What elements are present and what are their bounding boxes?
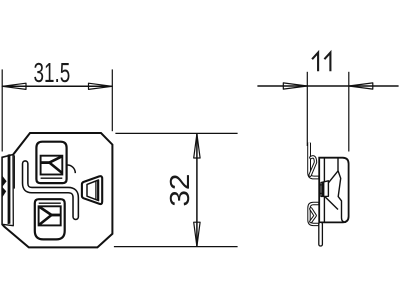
arrow pointing right — [283, 83, 307, 89]
left bracket plate — [2, 155, 13, 226]
top slot diagonal upper — [49, 156, 62, 162]
arrow right — [89, 83, 113, 89]
lower spring curl — [311, 209, 315, 222]
nose trapezoid outer — [82, 176, 102, 204]
bottom slot upper line — [39, 202, 61, 204]
S-band spring strip — [25, 164, 75, 217]
side body block — [319, 158, 348, 223]
bottom slot inner rect — [39, 206, 61, 225]
upper spring curl — [310, 157, 315, 175]
top slot diagonal lower — [49, 163, 62, 174]
dim line — [2, 85, 112, 87]
top slot inner rect — [41, 156, 63, 175]
dim line — [196, 134, 198, 247]
body outline — [2, 133, 112, 247]
arrow pointing left — [349, 83, 373, 89]
ext line left — [1, 69, 3, 151]
small arc right of top slot — [67, 165, 75, 173]
bottom slot outer — [35, 199, 65, 239]
ext line right — [111, 69, 113, 131]
ext line left — [306, 72, 308, 146]
top slot lower line — [41, 177, 63, 179]
nose fold line 1 — [95, 181, 97, 200]
top slot outer — [36, 142, 66, 183]
diagonal bottom — [325, 196, 338, 209]
bracket notch upper — [2, 176, 6, 187]
ext line bottom — [114, 246, 238, 248]
diagonal top — [328, 171, 338, 184]
bracket dark band — [8, 154, 11, 224]
inner left edge line — [13, 155, 15, 188]
bottom tab — [319, 222, 323, 246]
nose trapezoid inner — [87, 180, 99, 201]
inner wall bottom — [323, 193, 325, 222]
inner wall top — [323, 158, 325, 183]
bracket notch lower — [2, 187, 6, 198]
side nose outline — [321, 181, 328, 197]
bottom slot diagonal upper — [39, 207, 52, 216]
label 11 digit one a — [312, 53, 318, 72]
ext line top — [115, 132, 237, 134]
ext line right — [348, 72, 350, 152]
nose fold line 2 — [97, 180, 99, 200]
label 11 digit one b — [324, 53, 330, 72]
slot tick bottom — [319, 192, 322, 194]
arrow up — [194, 134, 200, 158]
top slot thick band — [41, 161, 50, 164]
plate upper band — [309, 143, 320, 178]
arrow left — [2, 83, 26, 89]
plate lower band — [309, 204, 320, 225]
fold polyline — [338, 158, 346, 223]
slot tick top — [319, 184, 322, 186]
svg-text:32: 32 — [164, 174, 195, 207]
dim line — [257, 85, 398, 87]
side nose dark bar — [322, 182, 325, 196]
bottom slot thick band — [51, 214, 60, 217]
bottom slot diagonal lower — [39, 215, 52, 225]
arrow down — [194, 222, 200, 246]
svg-text:31.5: 31.5 — [34, 57, 71, 88]
